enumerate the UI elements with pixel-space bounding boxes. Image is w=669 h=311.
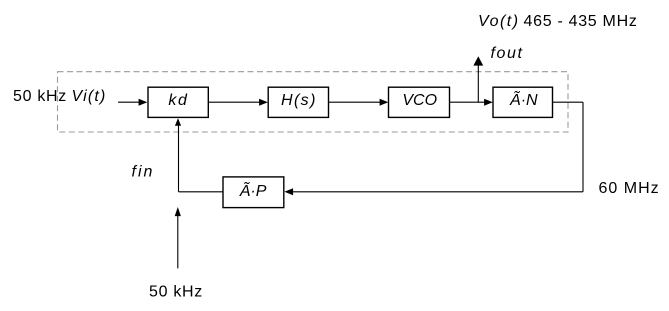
wire: H(s) to VCO	[329, 101, 381, 103]
svg-text:Vo(t): Vo(t)	[478, 13, 520, 30]
svg-text:fout: fout	[491, 45, 524, 62]
arrowhead fout (up)	[473, 56, 483, 65]
wire: feedback down right side	[582, 102, 584, 192]
block VCO	[389, 87, 450, 117]
svg-text:Ã·N: Ã·N	[509, 90, 538, 109]
svg-text:kd: kd	[168, 92, 188, 109]
svg-text:VCO: VCO	[402, 92, 437, 109]
wire: divider P output left	[179, 191, 224, 193]
arrowhead into H(s)	[259, 99, 268, 106]
arrowhead into kd bottom (up)	[175, 118, 181, 126]
block divider P	[223, 177, 284, 208]
wire: up into kd bottom	[178, 125, 180, 192]
svg-text:Vi(t): Vi(t)	[72, 88, 107, 105]
arrowhead into VCO	[380, 99, 389, 106]
svg-text:60 MHz: 60 MHz	[599, 180, 660, 197]
arrowhead 50 kHz input (up)	[175, 207, 181, 216]
block kd (phase detector)	[148, 87, 208, 117]
svg-text:50 kHz: 50 kHz	[13, 88, 67, 105]
wire: feedback left toward divider P	[293, 191, 584, 193]
svg-text:Ã·P: Ã·P	[239, 181, 267, 200]
block H(s) (loop filter)	[268, 87, 328, 117]
wire: fout stem up from VCO output node	[477, 65, 479, 103]
wire: kd to H(s)	[209, 101, 260, 103]
svg-text:465 - 435 MHz: 465 - 435 MHz	[524, 13, 638, 30]
svg-text:H(s): H(s)	[281, 92, 317, 109]
wire: VCO to divider N	[450, 101, 485, 103]
svg-text:50 kHz: 50 kHz	[149, 284, 203, 301]
arrowhead into divider P (pointing left)	[284, 188, 293, 195]
svg-text:fin: fin	[132, 163, 155, 180]
wire: 50 kHz input stem	[177, 216, 179, 269]
block divider N	[493, 87, 553, 117]
dashed PLL boundary box	[58, 72, 569, 132]
wire: divider N output right	[553, 101, 583, 103]
wire: reference input into kd	[118, 101, 140, 103]
arrowhead into kd	[139, 99, 148, 106]
arrowhead into divider N	[484, 99, 493, 106]
